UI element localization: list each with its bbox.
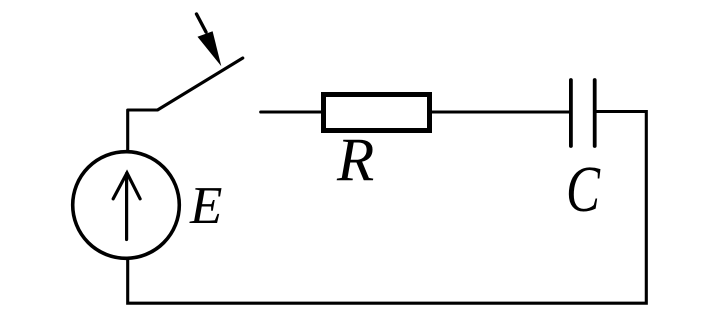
svg-text:E: E (189, 177, 222, 235)
svg-text:C: C (566, 153, 601, 226)
svg-text:R: R (336, 127, 374, 194)
